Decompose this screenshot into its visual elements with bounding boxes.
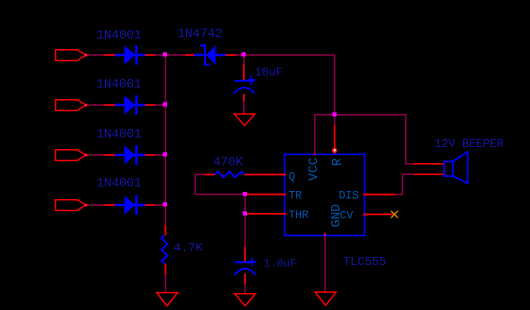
svg-text:THR: THR [289, 210, 309, 222]
diode D2 [115, 95, 145, 115]
wire: TR node down to THR node [244, 194, 246, 213]
svg-text:4.7K: 4.7K [174, 241, 204, 255]
wire: red pin stub right of zener D5 [226, 54, 236, 56]
diode D3 [115, 145, 145, 165]
junction: bus row 2 [163, 102, 167, 106]
svg-text:DIS: DIS [339, 191, 359, 203]
svg-text:1.0uF: 1.0uF [264, 258, 296, 270]
capacitor C2 1.0uF [235, 258, 256, 275]
wire: input row 3 (connector to bus) [86, 154, 166, 156]
ground below R2 [157, 293, 178, 306]
wire: Q output feedback loop [244, 174, 284, 176]
wire: R pin maroon stub [334, 115, 336, 125]
svg-text:1N4001: 1N4001 [97, 127, 142, 141]
wire: red stub below capacitor C1 [243, 94, 245, 102]
wire: input row 2 (connector to bus) [86, 104, 166, 106]
svg-text:1N4001: 1N4001 [97, 78, 142, 92]
speaker LS1 12V beeper [444, 152, 468, 184]
wire: vertical bus joining diode cathodes [165, 55, 167, 205]
junction: THR node [243, 211, 247, 215]
node: R pin connection dot [332, 148, 337, 153]
ground below C2 [235, 294, 256, 306]
wire: red pin stub left of diode D1 [104, 54, 115, 56]
wire: red speaker bottom pin stub [414, 173, 445, 175]
wire: red pin stub left of diode D3 [104, 154, 115, 156]
diode D1 [115, 45, 145, 65]
ground below C1 [234, 114, 255, 126]
wire: red DIS pin stub [365, 194, 396, 196]
wire: red stub below capacitor C2 [244, 274, 246, 285]
wire: TR pin row [245, 193, 285, 195]
wire: red R pin of U1 [334, 125, 336, 154]
svg-text:10uF: 10uF [255, 66, 283, 80]
resistor R1 470K [215, 172, 245, 178]
connector J4 [56, 200, 88, 211]
svg-text:VCC: VCC [306, 157, 321, 181]
pin tick TR on left edge [283, 193, 286, 195]
wire: supply drop to VCC node [334, 55, 336, 115]
wire: red THR pin stub [245, 213, 285, 215]
svg-text:TLC555: TLC555 [343, 255, 386, 269]
ground below U1 GND pin [315, 292, 336, 305]
wire: red stub above resistor R2 [165, 226, 167, 236]
wire: input row 1 (connector to bus) [86, 54, 166, 56]
no-connect marker on CV [391, 211, 398, 218]
svg-text:12V BEEPER: 12V BEEPER [435, 138, 504, 151]
svg-text:GND: GND [329, 204, 344, 228]
connector J2 [56, 100, 88, 111]
wire: VCC pin drop [314, 115, 316, 155]
junction: node A zener/C1 [241, 52, 245, 56]
wire: row1 bus to zener to node A [166, 54, 244, 56]
pin tick THR on left edge [283, 213, 286, 215]
wire: node A down to capacitor C1 and ground [243, 55, 245, 80]
wire: VCC branch left [315, 114, 335, 116]
wire: THR pin row [245, 213, 285, 215]
junction: bus row 1 [163, 52, 167, 56]
wire: red pin stub right of diode D1 [145, 54, 155, 56]
pin tick VCC on top edge [314, 153, 316, 155]
svg-text:TR: TR [289, 191, 303, 203]
pin tick DIS on right edge [363, 193, 366, 195]
zener diode D5 1N4742 [194, 45, 226, 65]
wire: red pin stub left of diode D4 [104, 204, 115, 206]
svg-text:470K: 470K [213, 156, 244, 170]
wire: red pin stub right of diode D4 [145, 204, 155, 206]
wire: bus down to resistor R2 and ground [165, 205, 167, 235]
svg-text:1N4001: 1N4001 [97, 177, 142, 191]
pin tick GND on bottom edge [324, 233, 326, 235]
pin tick CV on right edge [363, 213, 366, 215]
wire: red TR pin stub [245, 193, 285, 195]
wire: input row 4 (connector to bus) [86, 204, 166, 206]
wire: DIS pin to speaker branch [365, 174, 445, 194]
svg-text:1N4001: 1N4001 [97, 28, 142, 42]
wire: red Q pin run with resistor R1 [204, 174, 214, 176]
wire: red pin stub right of diode D3 [145, 154, 155, 156]
junction: bus row 3 [163, 152, 167, 156]
wire: red between R1 and Q pin [244, 174, 284, 176]
op-amp U1 TLC555 body [285, 154, 365, 235]
junction: bus row 4 [163, 202, 167, 206]
diode D4 [115, 195, 145, 215]
wire: node A to top-right corner [244, 54, 335, 56]
wire: red pin stub right of diode D2 [145, 104, 155, 106]
wire: GND pin drop to ground [324, 236, 326, 293]
wire: THR node down to capacitor C2 and ground [244, 214, 246, 262]
connector J3 [56, 150, 88, 161]
svg-text:Q: Q [289, 172, 296, 184]
svg-text:R: R [330, 158, 345, 166]
resistor R2 4.7K [162, 235, 168, 264]
junction: TR node [243, 192, 247, 196]
wire: supply to speaker branch [335, 115, 445, 164]
junction: VCC/R supply node [332, 112, 336, 116]
wire: red pin stub left of diode D2 [104, 104, 115, 106]
wire: red stub above capacitor C1 [243, 65, 245, 81]
connector J1 [56, 50, 88, 61]
wire: red stub above capacitor C2 [244, 247, 246, 262]
wire: red stub below resistor R2 [165, 264, 167, 275]
svg-text:1N4742: 1N4742 [178, 27, 223, 41]
wire: red speaker top pin stub [414, 163, 445, 165]
pin tick Q on left edge [283, 173, 286, 175]
wire: red pin stub left of zener D5 [185, 54, 195, 56]
capacitor C1 10uF [234, 76, 255, 94]
wire: CV pin to no-connect [365, 213, 395, 215]
